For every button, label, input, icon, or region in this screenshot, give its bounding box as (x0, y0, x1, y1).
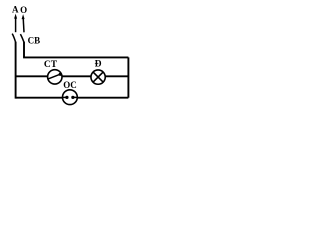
phase A feeder arrow (14, 14, 17, 33)
svg-text:A: A (12, 5, 19, 15)
wire: top rail (23, 56, 128, 58)
wire: O phase drop from CB to top rail (23, 42, 25, 58)
svg-text:CT: CT (44, 60, 58, 70)
svg-text:O: O (20, 5, 27, 15)
wire: middle rail (16, 75, 129, 77)
circuit breaker CB pole O blade (20, 34, 23, 42)
svg-text:OC: OC (63, 80, 77, 90)
contact CT (circle with blade and polarity dot) (48, 70, 62, 84)
svg-text:CB: CB (28, 35, 41, 45)
wire: right edge (127, 57, 129, 97)
wire: bottom rail (16, 97, 129, 99)
svg-text:Đ: Đ (95, 60, 102, 70)
wire: left bus from CB down to bottom rail (15, 42, 17, 99)
lamp D (circle with X) (91, 70, 105, 84)
phase O feeder arrow (22, 14, 25, 32)
background (0, 0, 134, 107)
circuit breaker CB pole A blade (12, 34, 15, 42)
relay OC (circle with two dots) (63, 90, 78, 105)
